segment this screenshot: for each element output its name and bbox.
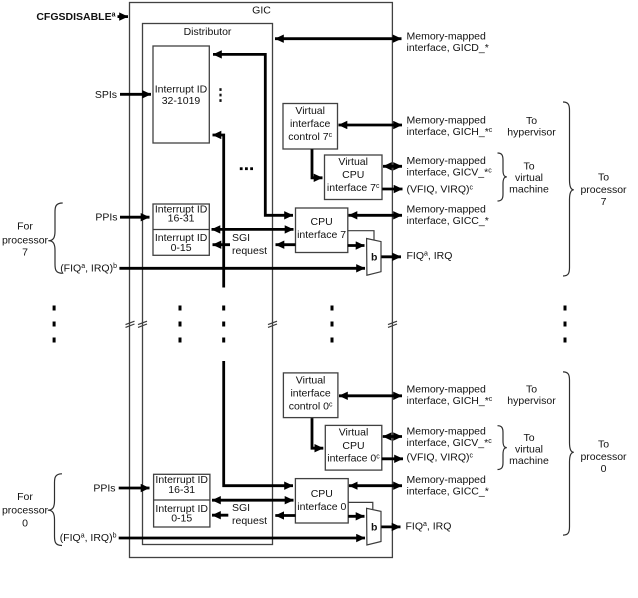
svg-text:interface, GICV_*c: interface, GICV_*c [407,167,493,179]
node: vertical ellipsis beside Interrupt ID 32-1019 [219,88,221,102]
svg-text:(VFIQ, VIRQ)c: (VFIQ, VIRQ)c [407,184,474,196]
wire: GICC double arrow (upper) [349,214,403,217]
svg-text:To: To [598,438,609,450]
node: ellipsis column bus [222,306,225,343]
svg-text:interface, GICD_*: interface, GICD_* [407,42,489,54]
svg-text:request: request [232,245,267,257]
brace: virtual machine group (lower) [498,426,507,470]
wire: FIQ IRQ legacy line (upper) [119,267,365,270]
box: Interrupt ID 16-31 / 0-15 (upper) [153,204,209,255]
brace: For processor 7 [48,203,62,273]
svg-text:processor: processor [580,184,627,196]
wire: SGI request from CPU interface 0 [275,514,295,517]
svg-text:(VFIQ, VIRQ)c: (VFIQ, VIRQ)c [407,451,474,463]
svg-text:To: To [598,172,609,184]
svg-text:b: b [371,252,377,264]
box: Virtual CPU interface 0 [325,425,382,470]
svg-text:interface 7c: interface 7c [327,182,380,194]
svg-text:processor: processor [580,451,627,463]
mux b (upper) [367,239,381,276]
svg-text:virtual: virtual [515,444,543,456]
GIC outer box [130,3,393,558]
svg-text:To: To [526,384,537,396]
svg-text:machine: machine [509,455,549,467]
svg-text:7: 7 [22,247,28,259]
svg-text:FIQa, IRQ: FIQa, IRQ [407,250,453,262]
svg-text:To: To [523,432,534,444]
wire: SPIs input arrow [120,93,151,96]
svg-text:Memory-mapped: Memory-mapped [407,426,487,438]
svg-text:interface: interface [290,388,330,400]
svg-text:Memory-mapped: Memory-mapped [407,115,487,127]
wire: FIQ IRQ output (lower) [381,526,400,529]
svg-text:To: To [526,115,537,127]
wire: GICH double arrow (lower) [339,394,402,397]
box: CPU interface 0 [295,479,348,523]
svg-text:SGI: SGI [232,502,250,514]
wire: CPU interface 0 to mux select (thin) [348,502,373,510]
svg-text:hypervisor: hypervisor [507,127,556,139]
svg-text:To: To [523,161,534,173]
svg-text:b: b [371,521,377,533]
svg-text:(FIQa, IRQ)b: (FIQa, IRQ)b [60,262,117,274]
svg-text:interface 0: interface 0 [297,501,346,513]
svg-text:FIQa, IRQ: FIQa, IRQ [406,520,452,532]
brace: To processor 0 [563,372,574,535]
svg-text:control 0c: control 0c [289,401,333,413]
svg-text:Memory-mapped: Memory-mapped [407,474,487,486]
svg-text:hypervisor: hypervisor [507,395,556,407]
wire: GICC double arrow (lower) [349,484,402,487]
svg-text:machine: machine [509,184,549,196]
wire: VFIQ VIRQ arrow [382,188,402,191]
svg-text:SPIs: SPIs [95,89,117,101]
wire: GICD memory-mapped double arrow [275,37,402,40]
wire: SGI to Interrupt ID 0-15 (lower) [212,514,228,517]
node: ellipsis column right braces [564,306,567,343]
svg-text:interface: interface [290,118,330,130]
svg-text:SGI: SGI [232,232,250,244]
svg-text:Virtual: Virtual [339,427,369,439]
svg-text:0-15: 0-15 [171,513,192,525]
wire: bus from Interrupt ID 32-1019 to CPU interface 7 [213,54,293,215]
wire: SGI request from CPU interface 7 [276,243,296,246]
svg-text:interface 0c: interface 0c [327,453,380,465]
mux b (lower) [367,508,381,545]
box: Virtual interface control 7 [283,104,338,150]
wire: GICV double arrow [383,165,402,168]
svg-text:16-31: 16-31 [168,213,195,225]
wire: GICV double arrow (lower) [383,435,402,438]
wire: GICH double arrow [339,124,403,127]
Distributor box [143,24,273,545]
box: Virtual CPU interface 7 [325,155,383,200]
break mark on GIC left edge [126,321,135,327]
svg-text:Interrupt ID: Interrupt ID [155,83,208,95]
svg-text:CPU: CPU [342,440,364,452]
brace: To processor 7 [563,102,574,276]
svg-text:Virtual: Virtual [295,105,325,117]
svg-text:GIC: GIC [252,5,271,17]
break mark on GIC right edge [388,321,397,327]
svg-text:0: 0 [22,517,28,529]
wire: Virtual interface control 7 to Virtual CPU interface 7 [312,149,323,178]
svg-text:Memory-mapped: Memory-mapped [407,155,487,167]
svg-text:PPIs: PPIs [93,483,115,495]
break mark on Distributor left edge [138,321,147,327]
svg-text:CPU: CPU [311,216,333,228]
svg-text:request: request [232,515,267,527]
brace: For processor 0 [48,474,62,546]
svg-text:interface, GICH_*c: interface, GICH_*c [407,126,493,138]
wire: VFIQ VIRQ arrow (lower) [382,457,403,460]
svg-text:Virtual: Virtual [296,375,326,387]
wire: Virtual interface control 0 to Virtual CPU interface 0 [312,418,323,448]
wire: interrupt distribution double arrow (upper) [212,228,294,231]
svg-text:32-1019: 32-1019 [162,95,201,107]
wire: SGI to Interrupt ID 0-15 (upper) [213,243,231,246]
wire: PPIs input arrow (upper) [120,216,150,219]
svg-text:Distributor: Distributor [184,26,232,38]
svg-text:Memory-mapped: Memory-mapped [407,204,487,216]
wire: FIQ IRQ legacy line (lower) [119,537,365,540]
wire: CPU interface 0 to mux input [348,515,364,518]
svg-text:processor: processor [2,505,49,517]
box: Interrupt ID 16-31 / 0-15 (lower) [154,474,210,527]
node: horizontal ellipsis inside Distributor [240,167,253,170]
box: Interrupt ID 32-1019 [153,46,209,143]
svg-text:CPU: CPU [342,169,364,181]
svg-text:0-15: 0-15 [171,242,192,254]
svg-text:Virtual: Virtual [338,156,368,168]
svg-text:interface, GICH_*c: interface, GICH_*c [407,395,493,407]
box: Virtual interface control 0 [283,373,338,418]
svg-text:Memory-mapped: Memory-mapped [407,31,487,43]
node: ellipsis column far left [53,306,56,343]
wire: bus into Interrupt ID 32-1019 lower arrow (upper SGI bus) [213,135,224,288]
brace: virtual machine group (upper) [498,153,507,201]
svg-text:interface, GICC_*: interface, GICC_* [407,485,489,497]
svg-text:CFGSDISABLEa: CFGSDISABLEa [36,11,115,23]
wire: FIQ IRQ output (upper) [381,255,401,258]
svg-text:For: For [17,491,33,503]
wire: CFGSDISABLE input arrow [118,15,129,18]
node: ellipsis column CPU interfaces [331,306,334,343]
svg-text:7: 7 [601,196,607,208]
node: ellipsis column interrupt boxes [179,306,182,343]
svg-text:0: 0 [601,463,607,475]
svg-text:Memory-mapped: Memory-mapped [407,384,487,396]
wire: interrupt distribution double arrow (lower) [212,499,294,502]
wire: PPIs input arrow (lower) [119,487,150,490]
break mark on Distributor right edge [268,321,277,327]
wire: bus to CPU interface 0 [224,361,293,486]
svg-text:interface, GICC_*: interface, GICC_* [407,215,489,227]
svg-text:virtual: virtual [515,172,543,184]
svg-text:interface 7: interface 7 [297,229,346,241]
svg-text:CPU: CPU [311,488,333,500]
svg-text:interface, GICV_*c: interface, GICV_*c [407,437,493,449]
wire: CPU interface 7 to mux select (thin) [348,231,374,241]
box: CPU interface 7 [296,208,348,253]
svg-text:PPIs: PPIs [95,212,117,224]
svg-text:For: For [17,220,33,232]
svg-text:processor: processor [2,234,49,246]
svg-text:control 7c: control 7c [288,131,332,143]
wire: CPU interface 7 to mux input [348,244,365,247]
svg-text:16-31: 16-31 [168,484,195,496]
svg-text:(FIQa, IRQ)b: (FIQa, IRQ)b [60,532,117,544]
